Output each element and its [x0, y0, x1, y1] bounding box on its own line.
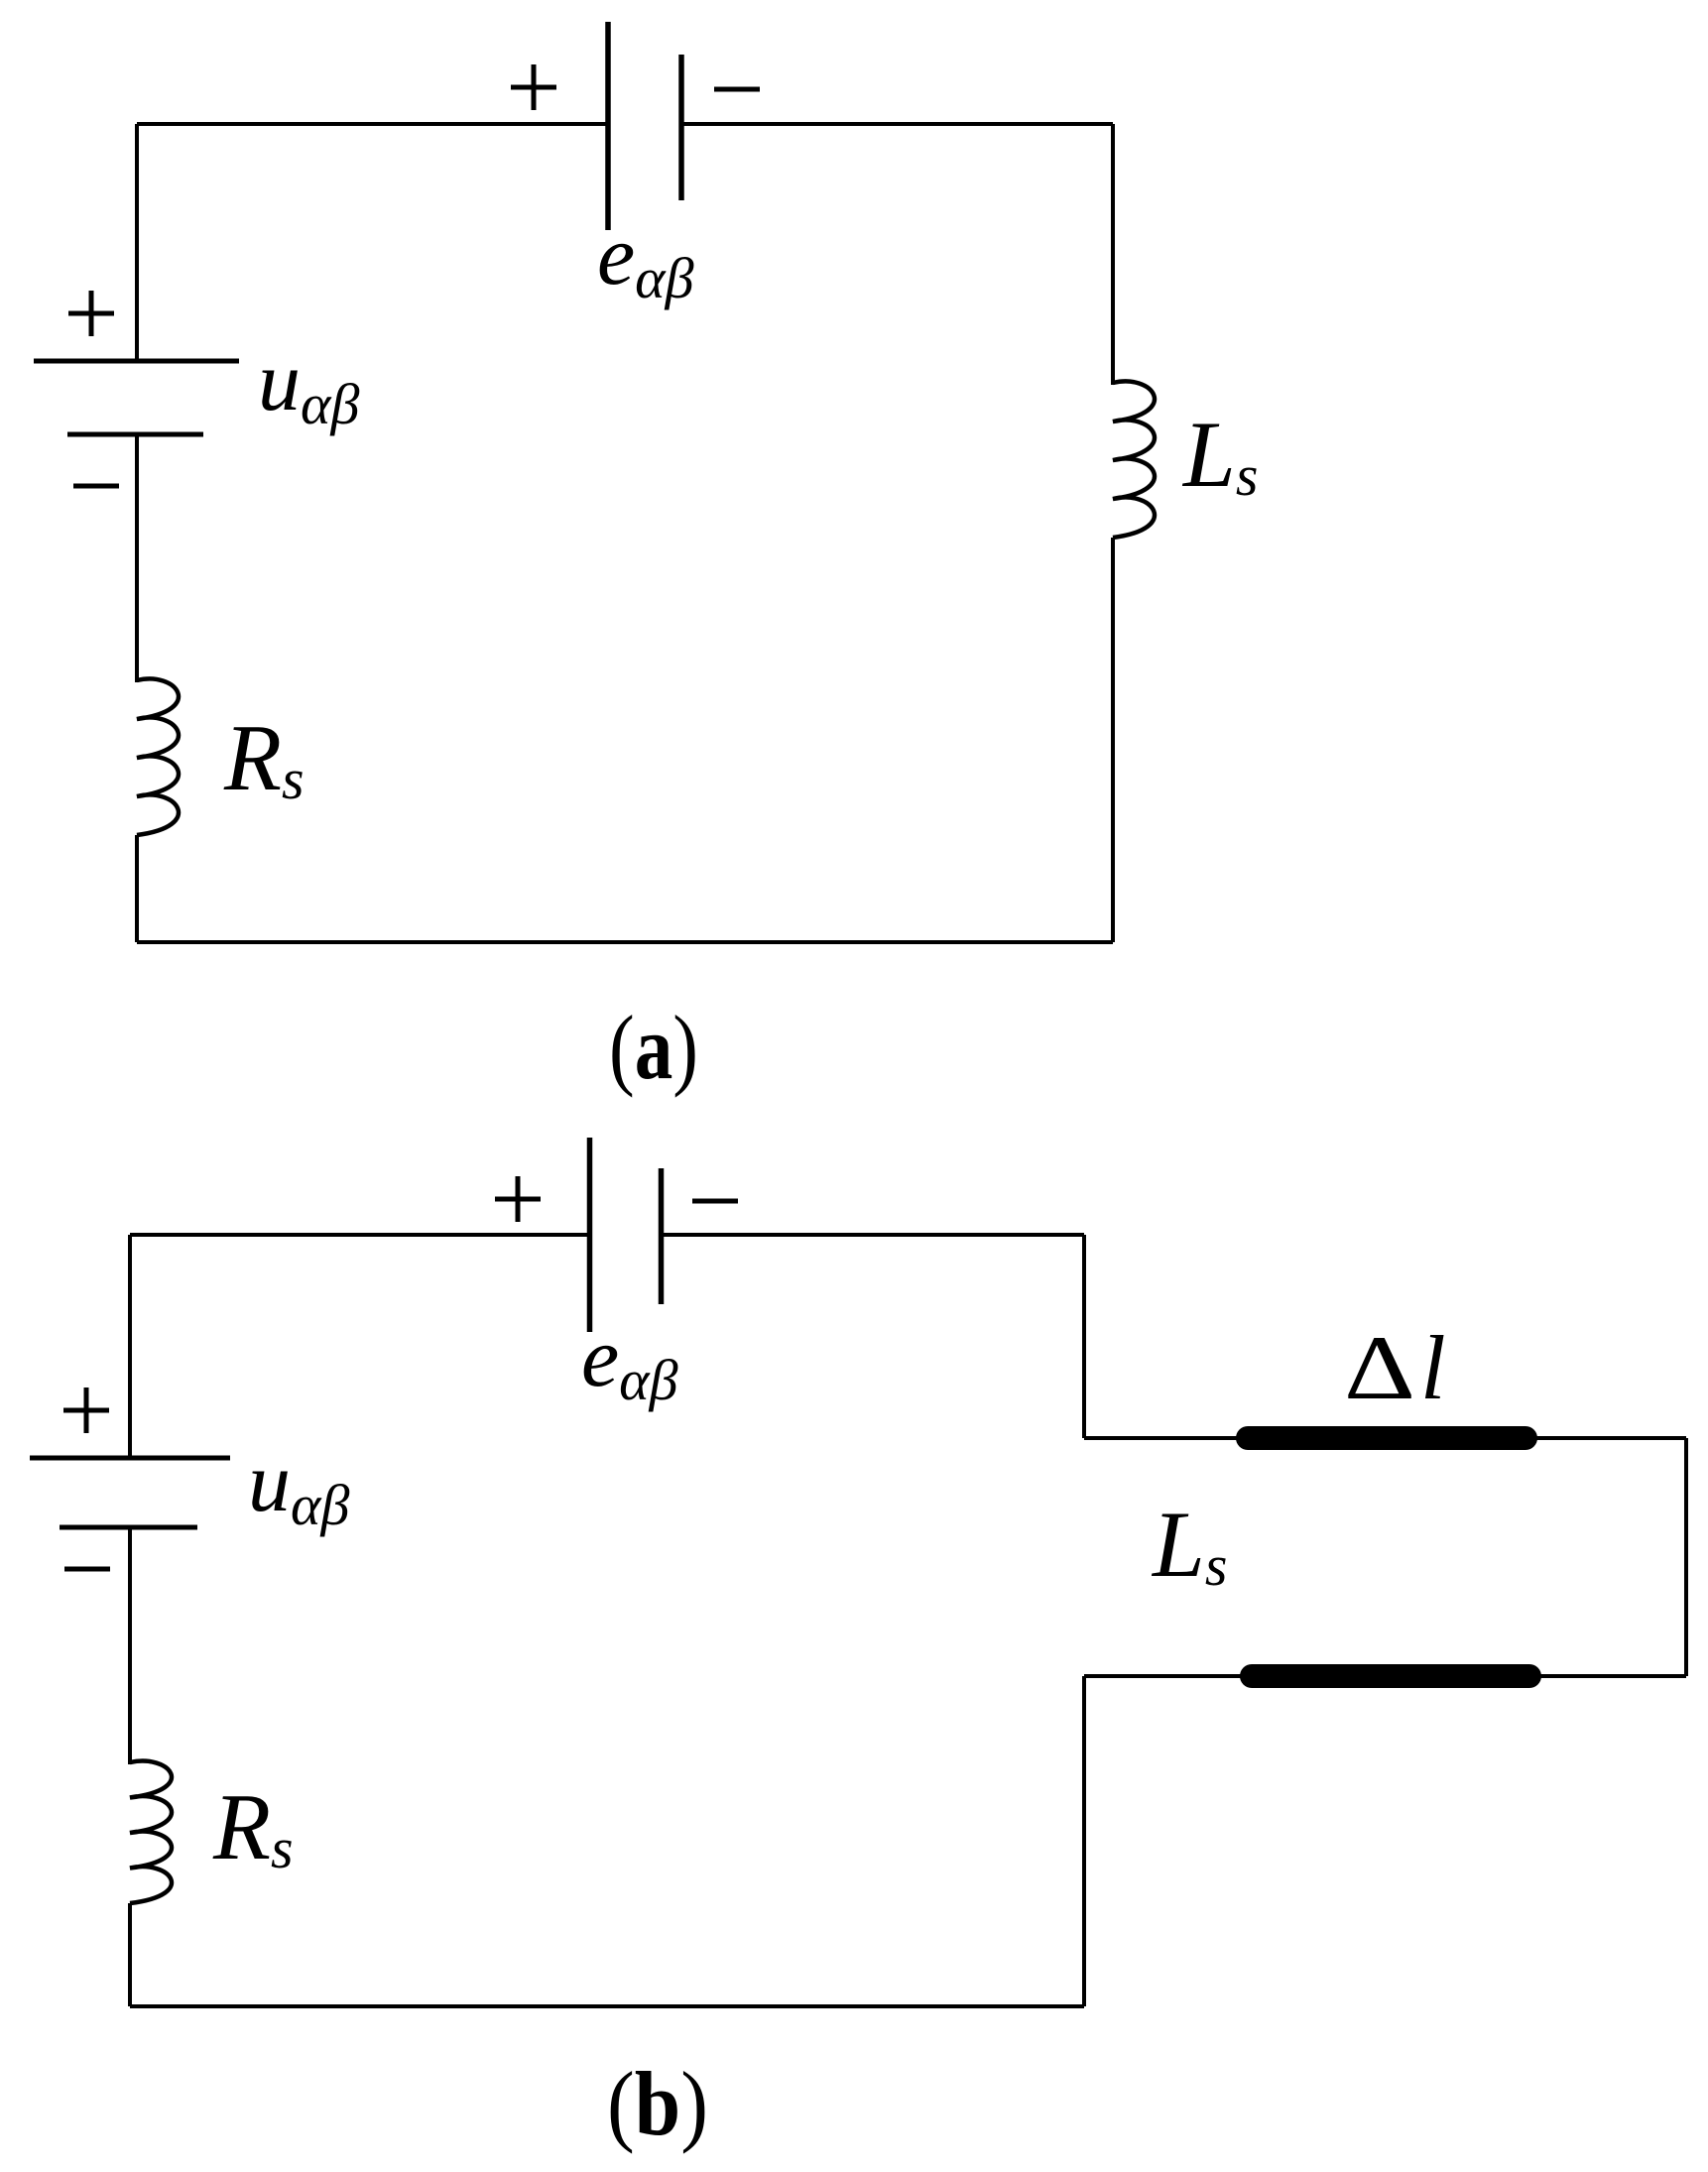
svg-text:uαβ: uαβ — [248, 1434, 349, 1537]
svg-text:Rs: Rs — [212, 1774, 294, 1880]
svg-text:Δl: Δl — [1344, 1317, 1446, 1418]
svg-text:Rs: Rs — [223, 705, 305, 811]
svg-text:(b): (b) — [607, 2053, 708, 2154]
svg-text:uαβ: uαβ — [258, 333, 359, 436]
svg-text:(a): (a) — [609, 997, 698, 1098]
svg-text:Ls: Ls — [1151, 1492, 1227, 1598]
svg-text:eαβ: eαβ — [581, 1309, 678, 1412]
svg-text:Ls: Ls — [1181, 402, 1258, 508]
svg-text:eαβ: eαβ — [597, 207, 694, 310]
